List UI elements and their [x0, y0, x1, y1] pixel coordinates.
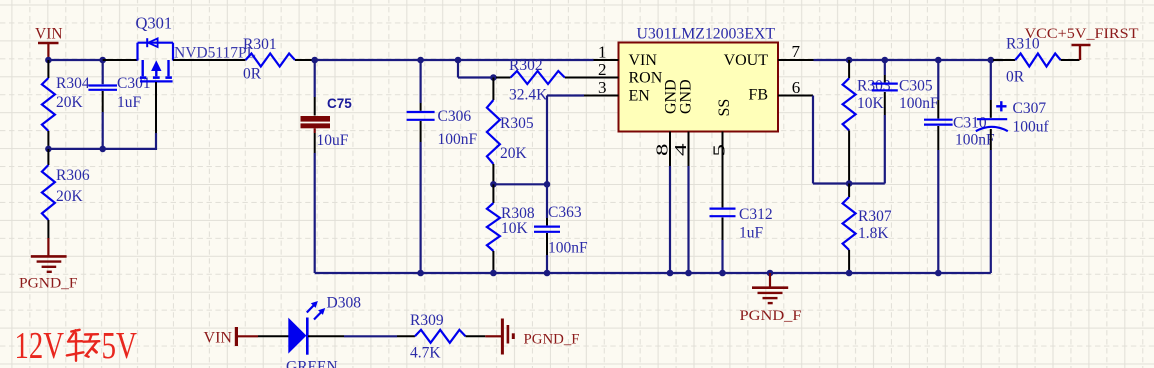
value 20K of R306	[56, 188, 84, 205]
pin name RON	[629, 70, 663, 87]
resistor R304	[42, 60, 55, 149]
label C363	[548, 204, 582, 221]
junction C310 bottom	[935, 270, 942, 277]
label R302	[509, 57, 543, 74]
pin number 8	[653, 144, 672, 157]
capacitor C312	[710, 157, 736, 273]
svg-text:VOUT: VOUT	[724, 52, 769, 69]
capacitor C307 (100uf polarized)	[976, 60, 1008, 273]
svg-text:R309: R309	[410, 312, 444, 329]
transistor Q301 body (P-MOSFET NVD5117PL)	[138, 43, 174, 61]
resistor R307 (1.8K)	[843, 184, 856, 274]
resistor R305 (20K)	[487, 78, 500, 185]
svg-text:C307: C307	[1013, 100, 1047, 117]
junction pin4 bottom	[685, 270, 692, 277]
op-amp U301 LMZ12003EXT body	[619, 43, 779, 132]
svg-text:D308: D308	[327, 295, 362, 312]
resistor R308 (10K)	[487, 184, 500, 273]
pin 3 stub (EN)	[594, 95, 619, 97]
junction R304 bottom	[45, 146, 52, 153]
pin 8 stub (GND)	[669, 132, 671, 167]
LED arrows	[307, 301, 325, 320]
Q301 channel ticks	[140, 76, 172, 79]
svg-text:R306: R306	[56, 167, 90, 184]
wire GND pin 8 down	[669, 166, 671, 273]
pin name SS	[716, 99, 733, 117]
Q301 channel contact bars	[143, 60, 169, 76]
svg-text:100nF: 100nF	[899, 95, 939, 112]
value 100uf of C307	[1013, 119, 1050, 136]
plus sign of C307	[996, 101, 1006, 111]
Q301 gate plate	[140, 80, 173, 82]
wire top bus R301 to U301 VIN	[315, 59, 594, 61]
Q301 substrate arrow (points up)	[152, 62, 161, 71]
resistor R301 (0R)	[246, 54, 315, 67]
value 100nF of C363	[548, 240, 588, 257]
svg-text:C305: C305	[899, 78, 933, 95]
svg-text:10K: 10K	[857, 95, 885, 112]
svg-text:0R: 0R	[1006, 69, 1025, 86]
capacitor C301	[88, 60, 117, 149]
svg-text:PGND_F: PGND_F	[524, 331, 580, 347]
junction EN branch	[455, 57, 462, 64]
svg-text:EN: EN	[629, 88, 651, 105]
pin number 6	[792, 78, 801, 97]
value NVD5117PL	[174, 45, 256, 62]
value 0R of R301	[243, 66, 262, 83]
wire FB pin down and right to R303/C305 bottom	[813, 96, 885, 184]
junction C307 top	[988, 57, 995, 64]
label R303	[857, 78, 891, 95]
label R305	[500, 115, 534, 132]
junction R305 top	[490, 74, 497, 81]
wire VIN to C301 node	[48, 59, 102, 61]
label Q301	[136, 14, 173, 33]
svg-text:1.8K: 1.8K	[858, 225, 889, 242]
svg-text:1uF: 1uF	[739, 225, 764, 242]
capacitor C75 (10uF, highlighted)	[301, 60, 331, 273]
svg-text:R302: R302	[509, 57, 543, 74]
capacitor C310	[924, 60, 953, 273]
ground PGND_F (left)	[19, 238, 78, 292]
wire ground bus	[315, 272, 991, 274]
junction C75 top	[311, 57, 318, 64]
svg-text:C312: C312	[739, 206, 773, 223]
LED D308 (GREEN)	[288, 318, 307, 355]
pin number 4	[671, 143, 690, 156]
svg-text:20K: 20K	[500, 145, 528, 162]
svg-text:U301LMZ12003EXT: U301LMZ12003EXT	[637, 26, 776, 43]
label R306	[56, 167, 90, 184]
label C306	[438, 108, 472, 125]
junction C301 bottom	[99, 146, 106, 153]
junction pin8 bottom	[667, 270, 674, 277]
transistor Q301 right pin (drain)	[173, 59, 246, 61]
svg-text:VIN: VIN	[629, 52, 658, 69]
pin 6 stub (FB)	[778, 95, 813, 97]
wire junction row below R304/C301	[48, 148, 156, 150]
junction C306 top	[417, 57, 424, 64]
value 1uF of C312	[739, 225, 764, 242]
svg-text:100nF: 100nF	[955, 132, 995, 149]
svg-text:4: 4	[671, 143, 690, 156]
label C75 (bold)	[327, 96, 352, 111]
pin number 3	[598, 78, 607, 97]
power port VIN (bottom)	[204, 327, 259, 346]
junction C363 top	[544, 181, 551, 188]
label R309	[410, 312, 444, 329]
junction C363 bottom	[544, 270, 551, 277]
svg-text:C306: C306	[438, 108, 472, 125]
wire EN-branch down then right (RON row)	[458, 60, 497, 78]
svg-text:5V: 5V	[102, 325, 138, 367]
svg-text:R305: R305	[500, 115, 534, 132]
svg-text:FB: FB	[748, 87, 768, 104]
svg-text:100nF: 100nF	[438, 131, 478, 148]
svg-text:VIN: VIN	[204, 329, 233, 346]
junction C305 top	[882, 57, 889, 64]
label C301	[117, 75, 151, 92]
label R310	[1006, 36, 1040, 53]
svg-text:R307: R307	[858, 208, 892, 225]
svg-text:8: 8	[653, 144, 672, 157]
junction R307 top	[846, 180, 853, 187]
pin name GND (pin 8)	[663, 79, 680, 114]
label R308	[501, 205, 535, 222]
svg-text:10uF: 10uF	[317, 132, 349, 149]
value 20K of R304	[56, 94, 84, 111]
resistor R306	[42, 149, 55, 239]
pin name GND (pin 4)	[678, 79, 695, 114]
body diode of Q301	[147, 38, 157, 47]
label R304	[56, 75, 90, 92]
wire VIN to LED	[258, 335, 289, 337]
capacitor C363	[534, 184, 560, 273]
wire EN pin to C363 column	[547, 96, 619, 185]
svg-text:0R: 0R	[243, 66, 262, 83]
svg-text:C363: C363	[548, 204, 582, 221]
svg-text:6: 6	[792, 78, 801, 97]
svg-text:VIN: VIN	[35, 26, 63, 43]
capacitor C306	[407, 60, 435, 273]
power port VIN (top left)	[35, 26, 63, 60]
pin 1 stub (VIN)	[594, 59, 619, 61]
label C305	[899, 78, 933, 95]
label C310	[953, 115, 987, 132]
pin name VOUT	[724, 52, 769, 69]
label D308	[327, 295, 362, 312]
svg-text:100nF: 100nF	[548, 240, 588, 257]
junction R308 bottom	[490, 270, 497, 277]
junction at C301 column	[99, 57, 106, 64]
value 100nF of C310	[955, 132, 995, 149]
resistor R309 (4.7K)	[415, 330, 485, 343]
label C307	[1013, 100, 1047, 117]
svg-text:RON: RON	[629, 70, 663, 87]
value 4.7K of R309	[410, 345, 441, 362]
svg-text:7: 7	[792, 42, 801, 61]
svg-text:Q301: Q301	[136, 14, 173, 33]
svg-text:20K: 20K	[56, 94, 84, 111]
svg-text:10K: 10K	[501, 220, 529, 237]
label C312	[739, 206, 773, 223]
junction at VIN column	[45, 57, 52, 64]
value 10K of R308	[501, 220, 529, 237]
pin 7 stub (VOUT)	[778, 59, 814, 61]
power port VCC+5V_FIRST	[1025, 26, 1139, 60]
value 10K of R303	[857, 95, 885, 112]
pin name FB	[748, 87, 768, 104]
svg-text:2: 2	[598, 60, 607, 79]
svg-text:1: 1	[598, 42, 607, 61]
wire GND pin 4 down	[687, 166, 689, 273]
pin name VIN	[629, 52, 658, 69]
label GREEN	[286, 359, 338, 368]
pin number 2	[598, 60, 607, 79]
resistor R302 (32.4K)	[496, 71, 619, 84]
pin 5 stub (SS)	[722, 132, 724, 158]
junction C312 bottom	[719, 270, 726, 277]
wire LED to R309	[308, 335, 415, 337]
pin number 5	[710, 144, 729, 157]
svg-text:100uf: 100uf	[1013, 119, 1050, 136]
title text 12V (red)	[15, 325, 65, 367]
pin number 1	[598, 42, 607, 61]
label R301	[243, 36, 277, 53]
resistor R303 (10K)	[843, 60, 856, 184]
junction R307 bottom	[846, 270, 853, 277]
wire R309 to PGND port	[485, 335, 501, 337]
svg-text:VCC+5V_FIRST: VCC+5V_FIRST	[1025, 26, 1139, 42]
svg-text:C75: C75	[327, 96, 352, 111]
svg-text:1uF: 1uF	[117, 94, 142, 111]
wire VOUT bus	[814, 59, 1004, 61]
junction C306 bottom	[417, 270, 424, 277]
value 1uF of C301	[117, 94, 142, 111]
junction R303 top	[846, 57, 853, 64]
Q301 gate wire down	[155, 82, 157, 150]
svg-text:PGND_F: PGND_F	[740, 308, 802, 324]
svg-text:3: 3	[598, 78, 607, 97]
junction PGND stub	[767, 270, 774, 277]
junction C310 top	[935, 57, 942, 64]
value 100nF of C306	[438, 131, 478, 148]
value 100nF of C305	[899, 95, 939, 112]
value 1.8K of R307	[858, 225, 889, 242]
svg-text:4.7K: 4.7K	[410, 345, 441, 362]
value 0R of R310	[1006, 69, 1025, 86]
value 32.4K of R302	[509, 87, 548, 104]
svg-text:SS: SS	[716, 99, 733, 117]
svg-text:12V: 12V	[15, 325, 65, 367]
value 10uF of C75	[317, 132, 349, 149]
capacitor C305	[872, 60, 898, 184]
pin 2 stub (RON)	[594, 77, 619, 79]
value 20K of R305	[500, 145, 528, 162]
resistor R310 (0R)	[993, 54, 1080, 67]
ground PGND_F (middle)	[740, 273, 802, 324]
label R307	[858, 208, 892, 225]
label U301LMZ12003EXT	[637, 26, 776, 43]
svg-text:R304: R304	[56, 75, 90, 92]
svg-text:R301: R301	[243, 36, 277, 53]
svg-text:GREEN: GREEN	[286, 359, 338, 368]
svg-text:PGND_F: PGND_F	[19, 276, 78, 292]
svg-text:32.4K: 32.4K	[509, 87, 548, 104]
pin 4 stub (GND)	[688, 132, 690, 167]
junction R308 top	[490, 181, 497, 188]
svg-text:5: 5	[710, 144, 729, 157]
pin number 7	[792, 42, 801, 61]
power port PGND_F (bottom right)	[502, 319, 579, 355]
pin name EN	[629, 88, 651, 105]
wire EN net row (R305/R308/C363 node)	[493, 183, 547, 185]
title text 5V (red)	[102, 325, 138, 367]
svg-text:GND: GND	[678, 79, 695, 114]
transistor Q301 left pin (source)	[103, 59, 138, 61]
svg-text:20K: 20K	[56, 188, 84, 205]
title glyph 转 (red, drawn)	[67, 330, 100, 361]
